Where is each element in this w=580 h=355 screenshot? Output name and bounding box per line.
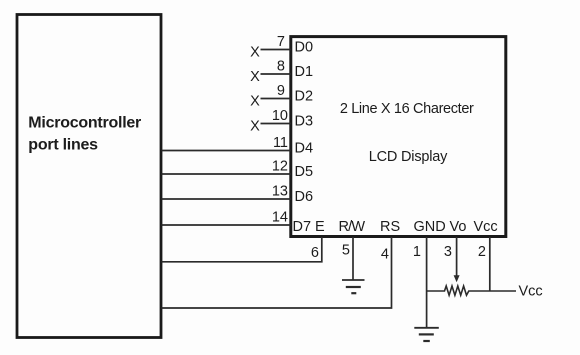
microcontroller box [17,15,161,338]
svg-text:14: 14 [272,210,288,226]
wire D3 (pin 10) [261,123,291,125]
svg-text:5: 5 [342,243,350,259]
svg-text:11: 11 [273,135,288,151]
wiper arrowhead [454,275,460,282]
wire D1 (pin 8) [261,73,291,75]
svg-text:X: X [250,69,260,85]
svg-text:D7: D7 [293,219,312,235]
wire D7 (pin 14) from microcontroller [162,224,291,226]
svg-text:2 Line X 16 Charecter: 2 Line X 16 Charecter [340,101,474,117]
wire Vcc (pin 2) [489,237,491,291]
wire D4 (pin 11) from microcontroller [162,150,291,152]
svg-text:GND: GND [414,219,446,235]
svg-text:X: X [250,94,260,110]
wire E (pin 6) to microcontroller [162,237,322,262]
wire D5 (pin 12) from microcontroller [162,173,291,175]
svg-text:8: 8 [277,59,285,75]
svg-text:12: 12 [272,159,288,175]
svg-text:D5: D5 [295,164,314,180]
ground symbol at GND [414,328,439,341]
svg-text:6: 6 [311,245,319,261]
LCD display box U1 [291,37,506,237]
svg-text:LCD Display: LCD Display [369,149,448,165]
svg-text:13: 13 [272,184,288,200]
svg-text:1: 1 [413,244,421,260]
svg-text:D4: D4 [295,141,314,157]
svg-text:D0: D0 [295,40,314,56]
svg-text:X: X [250,119,260,135]
svg-text:4: 4 [381,247,389,263]
wire D6 (pin 13) from microcontroller [162,198,291,200]
svg-text:3: 3 [444,244,452,260]
svg-text:9: 9 [277,83,285,99]
svg-text:Vo: Vo [450,219,467,235]
wire Vo (pin 3) wiper [456,237,458,276]
wire RS (pin 4) to microcontroller [162,237,392,308]
wire GND (pin 1) [426,237,428,328]
svg-text:D3: D3 [295,114,314,130]
svg-text:E: E [315,219,325,235]
svg-text:2: 2 [478,244,486,260]
wire D0 (pin 7) [261,49,291,51]
svg-text:port lines: port lines [28,137,98,154]
svg-text:Vcc: Vcc [519,284,543,300]
svg-text:R/W: R/W [339,219,366,235]
wire D2 (pin 9) [261,98,291,100]
potentiometer R1 (contrast) [427,286,516,295]
svg-text:7: 7 [277,34,285,50]
svg-text:Microcontroller: Microcontroller [28,115,141,132]
svg-text:D1: D1 [295,64,314,80]
svg-text:X: X [250,45,260,61]
svg-text:Vcc: Vcc [474,219,498,235]
svg-text:RS: RS [380,219,400,235]
svg-text:D2: D2 [295,89,314,105]
svg-text:D6: D6 [295,189,314,205]
wire R/W (pin 5) [352,237,354,280]
ground symbol at R/W [342,280,365,293]
svg-text:10: 10 [272,108,288,124]
